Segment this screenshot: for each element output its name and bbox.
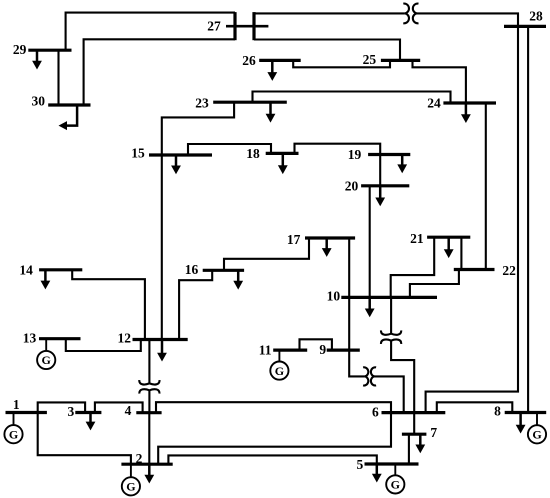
- bus 7 bar: [402, 433, 427, 436]
- svg-text:29: 29: [13, 42, 27, 57]
- svg-text:G: G: [391, 478, 400, 492]
- bus 20 bar: [361, 184, 409, 187]
- generator G bus 8: [528, 413, 546, 444]
- svg-text:12: 12: [117, 331, 131, 346]
- svg-text:24: 24: [427, 96, 441, 111]
- wire 2-5: [168, 455, 376, 464]
- load arrow bus 5: [372, 464, 382, 483]
- svg-text:G: G: [42, 353, 51, 367]
- wire 8-28: [527, 26, 529, 412]
- svg-text:G: G: [9, 427, 18, 441]
- bus 27 left bar: [233, 12, 236, 40]
- wire 29-30: [57, 50, 59, 105]
- wire 6-8: [437, 402, 513, 412]
- wire 18-19: [295, 144, 381, 155]
- svg-text:9: 9: [319, 342, 326, 357]
- wire 1-3: [38, 402, 85, 412]
- bus 6 bar: [382, 411, 446, 414]
- bus 26 bar: [259, 59, 301, 62]
- wire 2-6: [158, 413, 391, 465]
- wire 9-11: [300, 339, 332, 350]
- svg-text:7: 7: [430, 425, 437, 440]
- load arrow bus 29: [32, 50, 42, 69]
- svg-text:G: G: [532, 428, 541, 442]
- svg-text:28: 28: [529, 9, 543, 24]
- load arrow bus 8: [516, 413, 526, 434]
- wire 12-4 upper segment: [148, 340, 150, 384]
- bus 14 bar: [39, 268, 82, 271]
- wire 10-21: [391, 237, 435, 297]
- svg-text:22: 22: [502, 263, 516, 278]
- bus 22 bar: [454, 268, 495, 271]
- wire 3-4: [95, 402, 143, 412]
- svg-text:30: 30: [31, 94, 45, 109]
- bus 21 bar: [427, 236, 470, 239]
- wire 10-22: [410, 270, 459, 298]
- bus 17 bar: [305, 236, 355, 239]
- svg-text:8: 8: [494, 404, 501, 419]
- load arrow bus 16: [233, 270, 243, 289]
- transformer 6-9: [363, 367, 376, 385]
- bus 25 bar: [381, 59, 420, 62]
- bus 23 bar: [213, 101, 287, 104]
- wire 22-24: [485, 103, 487, 270]
- wire 2-4: [148, 413, 150, 465]
- wire 12-16: [179, 270, 212, 339]
- wire 1-2: [38, 413, 131, 465]
- svg-text:2: 2: [136, 451, 143, 466]
- svg-text:13: 13: [23, 330, 37, 345]
- load arrow bus 15: [171, 155, 181, 174]
- generator G bus 5: [386, 464, 404, 494]
- wire 16-17: [224, 238, 309, 270]
- wire 10-20: [369, 186, 371, 298]
- svg-text:11: 11: [259, 342, 272, 357]
- bus 10 bar: [341, 296, 437, 299]
- load arrow bus 18: [278, 153, 288, 174]
- wire 25-27: [254, 40, 400, 61]
- transformer 27-28: [403, 4, 418, 24]
- svg-text:10: 10: [327, 289, 341, 304]
- wire 19-20: [379, 155, 381, 186]
- wire 21-22: [460, 237, 462, 269]
- wire 27-28 right segment: [417, 13, 518, 26]
- load arrow bus 17: [322, 238, 332, 257]
- bus 29 bar: [28, 49, 71, 52]
- bus 1 bar: [6, 411, 47, 414]
- wire 9-10: [348, 297, 350, 350]
- svg-text:1: 1: [13, 397, 20, 412]
- load arrow bus 20: [375, 186, 385, 207]
- bus 30 bar: [48, 103, 90, 106]
- wire 6-7: [413, 413, 415, 435]
- load arrow bus 19: [397, 155, 407, 174]
- wire 15-23: [162, 102, 234, 155]
- wire 15-18: [188, 144, 271, 155]
- transformer 6-10: [381, 330, 401, 344]
- wire 6-9 left segment: [349, 350, 365, 376]
- svg-text:17: 17: [287, 232, 301, 247]
- svg-text:G: G: [126, 480, 135, 494]
- load arrow bus 30 (bent, points left): [59, 105, 78, 130]
- wire 5-7: [408, 434, 410, 464]
- wire 12-14: [72, 270, 145, 340]
- bus 9 bar: [327, 349, 360, 352]
- bus 5 bar: [365, 462, 419, 465]
- svg-text:16: 16: [185, 262, 199, 277]
- bus 19 bar: [368, 153, 410, 156]
- wire 4-6: [156, 402, 391, 413]
- svg-text:23: 23: [195, 96, 209, 111]
- bus 11 bar: [273, 349, 307, 352]
- wire 6-9 right segment: [374, 376, 403, 412]
- wire 10-17: [348, 238, 350, 297]
- bus 16 bar: [203, 269, 244, 272]
- wire 27-28 left segment: [254, 12, 405, 14]
- svg-text:4: 4: [125, 403, 132, 418]
- svg-text:26: 26: [242, 53, 256, 68]
- svg-text:25: 25: [363, 52, 377, 67]
- bus 4 bar: [136, 411, 161, 414]
- wire bus 27 tie: [226, 25, 268, 28]
- bus 15 bar: [149, 153, 212, 156]
- bus 3 bar: [75, 411, 101, 414]
- load arrow bus 24: [461, 103, 471, 123]
- load arrow bus 14: [41, 270, 51, 290]
- wire 27-29: [66, 13, 235, 51]
- load arrow bus 21: [444, 237, 454, 258]
- bus 24 bar: [443, 101, 496, 104]
- generator G bus 1: [4, 413, 22, 444]
- transformer 4-12: [139, 380, 159, 394]
- load arrow bus 23: [266, 102, 276, 122]
- load arrow bus 7: [415, 434, 425, 453]
- svg-text:18: 18: [246, 146, 260, 161]
- load arrow bus 10: [365, 297, 375, 317]
- wire 25-26: [293, 60, 390, 67]
- wire 24-25: [413, 60, 466, 103]
- wire 23-24: [253, 92, 451, 104]
- wire 12-13: [66, 339, 141, 351]
- bus 18 bar: [266, 152, 299, 155]
- bus 27 right bar: [252, 12, 255, 40]
- svg-text:20: 20: [345, 178, 359, 193]
- wire 12-4 lower segment: [148, 390, 150, 412]
- svg-text:G: G: [275, 364, 284, 378]
- generator G bus 11: [270, 350, 288, 380]
- wire 27-30: [84, 39, 235, 105]
- svg-text:14: 14: [19, 262, 33, 277]
- load arrow bus 3: [86, 413, 96, 431]
- svg-text:21: 21: [410, 231, 424, 246]
- svg-text:19: 19: [348, 147, 362, 162]
- bus 12 bar: [133, 338, 188, 341]
- svg-text:5: 5: [357, 457, 364, 472]
- load arrow bus 26: [267, 60, 277, 81]
- generator G bus 13: [37, 339, 55, 369]
- load arrow bus 12: [157, 340, 167, 362]
- bus 2 bar: [121, 463, 172, 466]
- wire 12-15: [161, 155, 163, 340]
- load arrow bus 2: [144, 464, 154, 483]
- wire 10-6 upper segment: [390, 297, 392, 333]
- wire 6-28: [426, 26, 518, 412]
- wire 10-6 lower segment: [391, 341, 414, 413]
- svg-text:3: 3: [68, 404, 75, 419]
- svg-text:15: 15: [131, 146, 145, 161]
- bus 8 bar: [505, 411, 547, 414]
- svg-text:6: 6: [372, 405, 379, 420]
- generator G bus 2: [122, 464, 140, 495]
- bus 13 bar: [39, 337, 81, 340]
- bus 28 bar: [504, 25, 546, 28]
- svg-text:27: 27: [207, 19, 221, 34]
